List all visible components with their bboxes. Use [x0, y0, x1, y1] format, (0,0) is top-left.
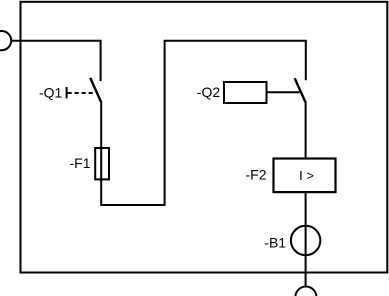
svg-text:I >: I > — [299, 168, 314, 183]
linkage from coil Q2 to contact — [267, 91, 300, 93]
terminal X1 (left supply terminal) — [0, 31, 11, 50]
mechanical linkage (dashed) Q1 — [68, 92, 94, 94]
svg-text:-F2: -F2 — [246, 167, 267, 183]
svg-text:-F1: -F1 — [70, 155, 91, 171]
contactor contact Q2 — [295, 78, 306, 102]
wire from terminal X1 to switch Q1 — [11, 41, 100, 81]
motor B1 — [291, 226, 320, 255]
overcurrent relay F2 — [274, 159, 336, 193]
wire from Q1 to fuse F1 — [100, 101, 102, 148]
wire from Q2 to relay F2 — [305, 101, 307, 158]
actuator tick of Q1 — [66, 87, 68, 98]
svg-text:-Q2: -Q2 — [197, 84, 221, 100]
coil box Q2 — [224, 82, 267, 103]
switch Q1 — [90, 78, 101, 102]
wire from fuse F1 down, right and up to top rail — [101, 41, 306, 205]
fuse F1 — [95, 148, 109, 179]
wire from relay F2 to motor B1 — [305, 192, 307, 286]
svg-text:-Q1: -Q1 — [39, 85, 63, 101]
svg-text:-B1: -B1 — [264, 234, 286, 250]
terminal X2 (bottom terminal) — [295, 287, 316, 296]
